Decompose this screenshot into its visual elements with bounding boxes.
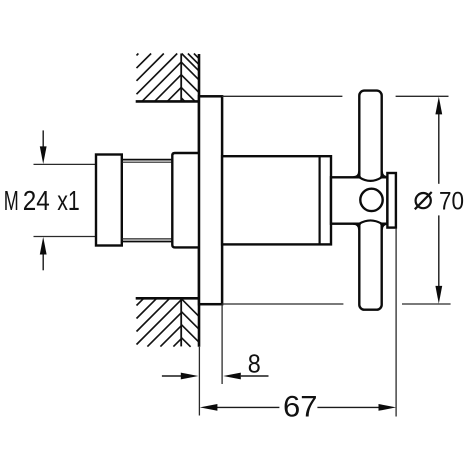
- dim67 line: [216, 406, 279, 408]
- dia70 arrow up: [435, 97, 442, 115]
- escutcheon right extension line down: [221, 304, 223, 384]
- dia70 extension bottom: [222, 303, 343, 305]
- wall hatch bottom block: [137, 298, 200, 346]
- dia70 extension top: [222, 95, 342, 97]
- wall hatch top block: [137, 54, 200, 102]
- bar-hub intersection arc top: [359, 177, 381, 181]
- bar-hub fillets: [353, 171, 387, 229]
- M24 extension line top: [34, 163, 97, 165]
- svg-text:70: 70: [439, 188, 464, 216]
- bar-hub intersection arc bottom: [359, 220, 381, 223]
- union nut: [96, 155, 122, 246]
- svg-text:M24x1: M24x1: [4, 185, 80, 216]
- wall top block center line: [180, 54, 182, 102]
- handle screw circle: [360, 189, 382, 211]
- wall bottom block center line: [180, 298, 182, 346]
- M24 arrow top: [42, 130, 44, 147]
- threaded tube inner (thread) lines: [122, 161, 173, 163]
- dim8 line left part: [162, 375, 181, 377]
- wall top block bottom border: [136, 100, 201, 103]
- dia70 arrow down: [435, 286, 442, 304]
- M24 arrow bottom: [42, 253, 44, 270]
- svg-text:67: 67: [283, 391, 318, 424]
- wall bottom block top border: [136, 297, 201, 300]
- valve body: [222, 156, 331, 244]
- label dia symbol: [416, 193, 431, 208]
- wall face line: [198, 54, 201, 347]
- threaded tube outer lines: [122, 159, 173, 161]
- svg-text:8: 8: [248, 349, 261, 379]
- dia70 dimension line: [438, 112, 440, 184]
- rough-in flange: [172, 153, 200, 247]
- wall face extension line (thin, down to 67 dim): [198, 347, 200, 416]
- M24 extension line bottom: [34, 236, 97, 238]
- handle hub: [331, 177, 387, 223]
- handle bar: [359, 91, 381, 310]
- hub end cap: [387, 173, 396, 228]
- valve body step line: [319, 156, 321, 244]
- dim8 line right part: [223, 373, 241, 380]
- dim67 extension right: [395, 228, 397, 417]
- escutcheon plate: [199, 96, 222, 304]
- erase hub edge across bar: [361, 175, 380, 179]
